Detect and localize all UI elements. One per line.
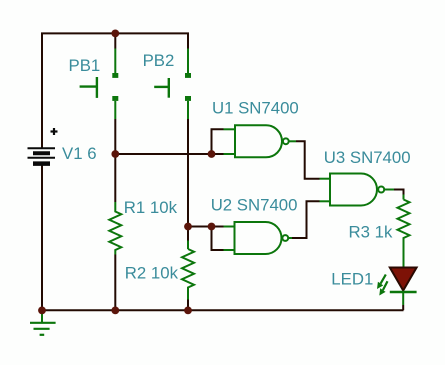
svg-text:PB1: PB1	[69, 56, 101, 75]
wire U1 input wrap	[212, 129, 224, 154]
node U1 inputs	[208, 150, 216, 158]
node ground/battery	[38, 307, 46, 315]
wire PB2 drop top	[187, 33, 189, 48]
wire PB1 to middle node	[114, 119, 116, 154]
wire U2 top input stub	[212, 226, 224, 228]
wire middle node to U1	[115, 153, 211, 155]
wire U2 input wrap	[212, 227, 224, 251]
wire R2 node tap to U2	[188, 226, 212, 228]
LED1 emission arrows	[377, 275, 388, 296]
node R2 bottom	[184, 307, 192, 315]
wire U3 output to R3	[394, 190, 404, 195]
wire bottom bus	[42, 309, 404, 311]
pushbutton PB1	[80, 49, 119, 120]
wire U1 output to U3 top input	[296, 141, 320, 178]
svg-text:U1 SN7400: U1 SN7400	[212, 98, 299, 117]
node middle PB1/R1	[111, 150, 119, 158]
svg-text:U2 SN7400: U2 SN7400	[211, 195, 298, 214]
resistor R2	[182, 241, 194, 311]
resistor R3	[398, 195, 410, 268]
node R1 bottom	[111, 307, 119, 315]
wire top bus	[42, 33, 188, 148]
svg-text:U3 SN7400: U3 SN7400	[324, 148, 411, 167]
resistor R1	[109, 154, 121, 310]
op-amp U2 nand gate	[224, 222, 293, 254]
battery V1	[28, 128, 58, 164]
wire PB1 drop top	[114, 33, 116, 48]
node U2 inputs	[208, 223, 216, 231]
LED1 diode	[390, 268, 417, 311]
wire U1 bottom input stub	[212, 153, 224, 155]
node top bus / PB1	[111, 30, 119, 38]
wire left rail bottom	[41, 166, 43, 311]
wire U2 output to U3 bottom input	[292, 201, 320, 238]
svg-text:PB2: PB2	[143, 51, 175, 70]
node PB2/R2	[184, 223, 192, 231]
op-amp U3 nand gate	[320, 174, 395, 206]
svg-text:R1 10k: R1 10k	[124, 198, 178, 217]
svg-text:R2 10k: R2 10k	[125, 264, 179, 283]
ground	[30, 310, 56, 335]
wire PB2 down to R2 node	[187, 119, 189, 241]
svg-text:V1 6: V1 6	[62, 144, 97, 163]
pushbutton PB2	[154, 49, 191, 120]
svg-text:LED1: LED1	[331, 269, 373, 288]
op-amp U1 nand gate	[224, 125, 297, 157]
svg-text:R3 1k: R3 1k	[349, 222, 393, 241]
